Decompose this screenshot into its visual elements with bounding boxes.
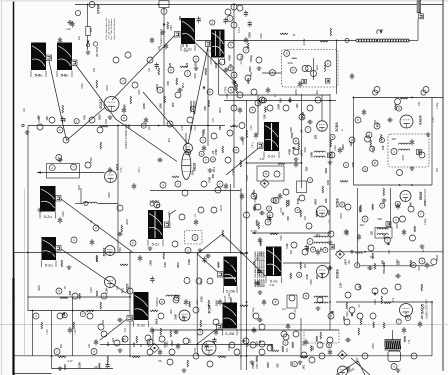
junction 2 xyxy=(233,125,235,127)
terminal 148 xyxy=(391,149,397,155)
svg-text:.0047: .0047 xyxy=(344,258,347,265)
terminal a49 xyxy=(379,138,384,143)
arrow pot 1 xyxy=(87,41,90,44)
junction 20 xyxy=(431,301,433,303)
terminal 129 xyxy=(231,105,237,111)
svg-text:47K: 47K xyxy=(212,117,215,122)
capacitor C12 xyxy=(238,107,242,114)
IF transformer T3 xyxy=(264,122,279,159)
svg-text:TP-1: TP-1 xyxy=(122,287,125,293)
resistor RH7 xyxy=(86,310,94,312)
tube V8 5AQ5 audio out xyxy=(400,304,413,317)
resistor R4 xyxy=(62,105,64,113)
wire horiz y190 det xyxy=(150,190,241,192)
terminal 31 xyxy=(193,56,199,62)
svg-text:.0047: .0047 xyxy=(106,84,109,91)
wire vert x218 below T2 xyxy=(218,58,220,95)
capacitor CH6 xyxy=(157,158,163,162)
svg-text:.001: .001 xyxy=(253,260,256,265)
capacitor a130 xyxy=(205,343,209,350)
terminal 168 xyxy=(197,329,203,335)
svg-text:6T8A: 6T8A xyxy=(97,4,101,14)
terminal 83 xyxy=(344,319,350,325)
wire L4 lead left xyxy=(75,203,83,205)
terminal 18 xyxy=(302,66,308,72)
osc coil core b xyxy=(194,101,196,114)
svg-text:150V: 150V xyxy=(342,144,345,150)
wire diagonal B7 takeoff xyxy=(61,249,126,293)
resistor R9 xyxy=(330,28,332,36)
terminal a182 xyxy=(295,208,300,213)
terminal 21 xyxy=(325,61,331,67)
junction 8 xyxy=(246,162,248,164)
svg-text:680: 680 xyxy=(124,104,127,109)
terminal a114 xyxy=(159,299,164,304)
terminal a138 xyxy=(327,343,332,348)
ground 4 xyxy=(194,66,199,70)
terminal 84 xyxy=(273,299,279,305)
terminal 9 xyxy=(231,22,237,28)
junction 24 xyxy=(353,97,355,99)
capacitor a103 xyxy=(202,257,206,264)
svg-text:1.5K: 1.5K xyxy=(133,342,136,347)
wire vert x197 drop xyxy=(196,253,198,357)
junction 22 xyxy=(411,184,413,186)
page border left rail xyxy=(13,0,15,375)
wire vert x313 in box xyxy=(313,58,315,80)
diamond test point D3 xyxy=(150,344,159,353)
svg-text:3CB6: 3CB6 xyxy=(336,198,340,207)
brightness control box xyxy=(257,166,284,181)
svg-text:.0047: .0047 xyxy=(156,83,159,90)
wire diagonal T1 to phase det xyxy=(112,36,175,101)
svg-text:.05: .05 xyxy=(300,129,303,133)
IF transformer T4 xyxy=(40,186,56,219)
terminal 50 xyxy=(84,202,88,206)
resistor R38 xyxy=(410,260,412,267)
svg-text:DET: DET xyxy=(378,218,383,221)
svg-text:270K: 270K xyxy=(291,132,294,138)
terminal 103 xyxy=(87,313,93,319)
terminal 165 xyxy=(71,164,77,170)
resistor R54 xyxy=(286,200,288,207)
junction 29 xyxy=(129,252,131,254)
wire vert x241 B+ bus xyxy=(240,188,242,370)
wire vert x301 low xyxy=(300,318,302,356)
wire vert x390 det xyxy=(390,188,392,228)
wire L4 lead right xyxy=(98,203,119,205)
svg-text:3BZ6: 3BZ6 xyxy=(193,163,197,172)
svg-text:47K: 47K xyxy=(377,122,380,127)
terminal 16 xyxy=(284,50,290,56)
left rail lower thick xyxy=(12,278,14,375)
arrow pot 4 xyxy=(351,314,354,317)
resistor a86 xyxy=(260,240,262,246)
resistor RH2 xyxy=(280,33,288,35)
svg-text:100K: 100K xyxy=(328,209,331,215)
resistor R11 xyxy=(381,296,383,304)
resistor R19 xyxy=(186,40,188,47)
terminal 58 xyxy=(255,204,261,210)
svg-text:270K: 270K xyxy=(256,363,259,369)
tube V7 3CB6 b xyxy=(317,266,340,279)
svg-text:1000: 1000 xyxy=(160,103,163,109)
svg-text:Osc. Tube Or Reduce: Osc. Tube Or Reduce xyxy=(110,18,113,40)
svg-text:100K: 100K xyxy=(90,287,93,293)
svg-text:25V: 25V xyxy=(303,341,306,346)
wire vert x353 sound if xyxy=(353,98,355,186)
terminal 174 xyxy=(283,189,289,195)
svg-text:100K: 100K xyxy=(310,152,313,158)
resistor R22 xyxy=(96,255,98,262)
terminal 17 xyxy=(290,67,296,73)
yoke plug xyxy=(419,14,424,19)
svg-text:270K: 270K xyxy=(242,139,245,145)
terminal 30 xyxy=(345,204,351,210)
terminal 60 xyxy=(299,195,305,201)
ground 14 xyxy=(198,248,203,252)
ground 15 xyxy=(258,290,263,294)
ground 11 xyxy=(420,244,425,248)
terminal 51 xyxy=(117,205,123,211)
resistor R53 xyxy=(254,204,256,211)
svg-text:680: 680 xyxy=(255,195,258,200)
junction 12 xyxy=(72,310,74,312)
wire fan to T8 slug xyxy=(197,254,219,273)
svg-text:5-2x: 5-2x xyxy=(270,279,278,284)
svg-text:10K: 10K xyxy=(88,343,91,348)
terminal top small tube xyxy=(75,10,80,15)
terminal 143 xyxy=(351,251,353,253)
terminal 32 xyxy=(200,137,206,143)
terminal 137 xyxy=(253,313,259,319)
arrow pot 5 xyxy=(243,340,246,343)
terminal 140 xyxy=(349,307,355,313)
terminal 100 xyxy=(147,349,153,355)
svg-text:5-2x: 5-2x xyxy=(152,242,160,247)
capacitor C26 xyxy=(286,323,290,330)
svg-text:47K: 47K xyxy=(167,81,170,86)
terminal 97 xyxy=(91,349,97,355)
capacitor C44 xyxy=(158,349,162,356)
terminal 47 xyxy=(85,162,91,168)
resistor RH12 xyxy=(270,233,278,235)
terminal 131 xyxy=(225,157,231,163)
resistor R20 xyxy=(222,146,224,153)
resistor R5 xyxy=(100,142,102,149)
terminal a144 xyxy=(405,316,410,321)
wire vert x81 xyxy=(80,188,82,204)
slug adjust M7 xyxy=(56,246,62,252)
junction 32 xyxy=(246,301,248,303)
resistor R8 xyxy=(298,143,300,150)
terminal 4 xyxy=(161,8,167,14)
resistor RH21 xyxy=(278,163,285,165)
trap coil L11b xyxy=(314,156,325,157)
terminal 72 xyxy=(410,235,416,241)
wire vert x234 main xyxy=(233,5,235,189)
svg-text:100K: 100K xyxy=(168,211,171,217)
resistor R16 xyxy=(240,160,242,167)
svg-text:250V: 250V xyxy=(355,358,359,365)
terminal 78 xyxy=(395,284,401,290)
capacitor C15 xyxy=(138,255,142,262)
wire diagonal bottom right xyxy=(351,358,370,375)
page border right rail xyxy=(442,0,444,371)
resistor R52 xyxy=(208,300,210,307)
wire vert x14 bottom xyxy=(13,253,15,374)
terminal 164 xyxy=(49,165,55,171)
terminal 181 xyxy=(225,9,231,15)
terminal 155 xyxy=(251,89,257,95)
svg-text:270K: 270K xyxy=(183,315,186,321)
coil L10 xyxy=(324,63,325,71)
wire horiz y330 vert section xyxy=(153,329,339,331)
terminal 141 xyxy=(357,313,363,319)
terminal 94 xyxy=(169,349,175,355)
terminal 62 xyxy=(328,231,334,237)
IF transformer T7 xyxy=(266,247,282,284)
resistor R29 xyxy=(346,302,348,309)
terminal 163 xyxy=(219,59,225,65)
wire coil to corner xyxy=(408,40,418,42)
terminal 196 xyxy=(431,259,437,265)
svg-text:6C4: 6C4 xyxy=(116,164,120,171)
terminal 71 xyxy=(418,211,424,217)
terminal a43 xyxy=(330,134,335,139)
tube V6 3CB6 xyxy=(317,198,340,217)
terminal 154 xyxy=(315,97,321,103)
svg-text:TO-1: TO-1 xyxy=(138,167,141,173)
svg-text:5-2x: 5-2x xyxy=(137,323,145,328)
svg-text:100K: 100K xyxy=(289,97,292,103)
tube V11 6CM7 vert out xyxy=(202,341,216,355)
terminal a135 xyxy=(283,340,288,345)
svg-text:5-2u: 5-2u xyxy=(44,214,52,219)
terminal 52 xyxy=(130,240,136,246)
terminal 90 xyxy=(259,349,265,355)
resistor R33 xyxy=(100,302,102,309)
terminal 43 xyxy=(63,137,69,143)
terminal 108 xyxy=(101,293,107,299)
junction 34 xyxy=(411,97,413,99)
terminal 195 xyxy=(273,198,279,204)
terminal 22 xyxy=(269,70,275,76)
arrow into coil xyxy=(380,31,383,34)
resistor a134 xyxy=(271,344,273,350)
terminal 20 xyxy=(311,71,317,77)
wire horiz y100 agc xyxy=(224,100,336,102)
terminal 144 xyxy=(395,99,401,105)
svg-text:ADJUST TOP AND BOTTOM CORES: ADJUST TOP AND BOTTOM CORES xyxy=(262,251,265,287)
resistor RH19 xyxy=(150,310,158,312)
ground 19 xyxy=(298,360,303,364)
terminal 186 xyxy=(237,92,243,98)
svg-text:6CD7: 6CD7 xyxy=(103,248,107,257)
resistor RH15 xyxy=(100,126,108,128)
resistor a164 xyxy=(99,363,101,369)
svg-text:25V: 25V xyxy=(172,102,175,107)
svg-text:6AU6: 6AU6 xyxy=(419,115,423,124)
svg-text:E: E xyxy=(286,52,288,56)
wire vert x72 xyxy=(72,297,74,356)
svg-text:680: 680 xyxy=(122,337,125,342)
svg-text:1.5K: 1.5K xyxy=(194,347,197,352)
shield box quad coil xyxy=(388,134,429,167)
capacitor a155 xyxy=(223,18,227,25)
resistor R34 xyxy=(160,328,162,335)
svg-text:255V: 255V xyxy=(230,297,233,303)
svg-text:47K: 47K xyxy=(124,327,127,332)
ground 20 xyxy=(346,366,351,370)
terminal 48 xyxy=(71,237,77,243)
wire diagonal B6 takeoff xyxy=(61,199,133,253)
svg-text:12K: 12K xyxy=(397,260,400,265)
terminal 27 xyxy=(423,87,429,93)
wire y73 into box xyxy=(262,72,282,74)
svg-text:1.5K: 1.5K xyxy=(106,288,109,293)
svg-text:25V: 25V xyxy=(194,61,197,66)
terminal 166 xyxy=(56,155,62,161)
wire V3 plate up xyxy=(321,95,323,121)
svg-text:100K: 100K xyxy=(170,25,173,31)
coil L12 takeoff xyxy=(292,58,296,59)
diamond test point D1 xyxy=(338,350,347,359)
svg-text:5-2l8: 5-2l8 xyxy=(225,331,235,336)
capacitor C7 xyxy=(338,147,342,154)
resistor R17 xyxy=(208,100,210,107)
resistor R57 xyxy=(404,336,406,342)
terminal 192 xyxy=(201,181,207,187)
slug adjust M3 xyxy=(175,32,181,38)
page left edge shadow xyxy=(1,0,3,375)
svg-text:56K: 56K xyxy=(179,16,182,21)
svg-text:82K: 82K xyxy=(168,137,171,142)
terminal a58 xyxy=(363,167,368,172)
svg-text:1500: 1500 xyxy=(105,119,108,125)
svg-text:120: 120 xyxy=(186,62,189,67)
wire vert x230 det xyxy=(230,184,232,253)
resistor RH18 xyxy=(384,302,391,304)
resistor RH17 xyxy=(272,350,279,352)
terminal 63 xyxy=(291,242,297,248)
svg-text:3300: 3300 xyxy=(307,245,310,251)
resistor RH11 xyxy=(355,252,363,254)
capacitor C37 xyxy=(108,167,112,174)
resistor a65 xyxy=(256,220,258,226)
junction 9 xyxy=(329,100,331,102)
terminal 57 xyxy=(244,212,250,218)
svg-text:100K: 100K xyxy=(277,104,280,110)
resistor RH4 xyxy=(230,126,238,128)
tube V2 6X8 envelope xyxy=(182,152,191,180)
svg-text:.001: .001 xyxy=(296,103,299,108)
faint rail x24 xyxy=(24,188,26,356)
terminal 49 xyxy=(93,225,99,231)
resistor R49 xyxy=(372,253,374,259)
svg-text:50K: 50K xyxy=(90,27,93,32)
terminal 104 xyxy=(98,324,104,330)
capacitor C39 xyxy=(224,183,228,190)
svg-text:470K: 470K xyxy=(228,55,231,61)
svg-text:1 Meg: 1 Meg xyxy=(250,55,253,63)
terminal a84 xyxy=(297,272,302,277)
capacitor a165 xyxy=(105,362,109,369)
resistor R13 xyxy=(370,140,372,147)
svg-text:4.7K: 4.7K xyxy=(120,167,123,172)
svg-text:56K: 56K xyxy=(290,249,293,254)
terminal 197 xyxy=(305,127,311,133)
resistor RH10 xyxy=(340,181,348,183)
resistor a169 xyxy=(247,43,249,49)
capacitor C18 xyxy=(316,249,320,256)
capacitor C19 xyxy=(344,229,348,236)
resistor R32 xyxy=(73,322,75,329)
svg-text:100K: 100K xyxy=(215,300,218,306)
svg-text:5-2x: 5-2x xyxy=(268,154,276,159)
junction 3 xyxy=(207,125,209,127)
svg-text:15K: 15K xyxy=(264,114,267,119)
coil L7 slug xyxy=(386,222,391,227)
terminal a33 xyxy=(261,98,266,103)
speaker terminal xyxy=(391,364,397,370)
wire horiz y297 xyxy=(28,296,131,298)
svg-text:1.5K: 1.5K xyxy=(250,125,253,130)
terminal a91 xyxy=(355,263,360,268)
svg-text:TP-1: TP-1 xyxy=(256,255,259,261)
terminal 42 xyxy=(57,127,63,133)
svg-text:1 W1: 1 W1 xyxy=(46,329,49,335)
svg-text:3CB6: 3CB6 xyxy=(335,122,339,131)
wire diagonal T3 to video xyxy=(226,149,258,176)
arrow pot 2 xyxy=(293,147,296,150)
terminal 130 xyxy=(233,147,239,153)
wire diagonal tuner2 to IF xyxy=(75,63,178,162)
capacitor C24 xyxy=(214,329,218,336)
junction 28 xyxy=(336,40,338,42)
trap slug xyxy=(328,153,333,158)
svg-text:6800: 6800 xyxy=(156,318,159,324)
terminal 187 xyxy=(263,171,269,177)
svg-text:15K: 15K xyxy=(219,126,222,131)
terminal a16 xyxy=(186,150,191,155)
slug adjust M11 xyxy=(127,316,133,322)
terminal 8 xyxy=(227,16,233,22)
terminal 136 xyxy=(193,353,199,359)
svg-text:112: 112 xyxy=(282,308,286,311)
junction 6 xyxy=(27,252,29,254)
svg-text:.001: .001 xyxy=(421,314,424,319)
svg-text:22K: 22K xyxy=(305,166,308,171)
page top edge shade xyxy=(0,0,448,2)
resistor RH16 xyxy=(48,253,56,255)
wire horiz y310 xyxy=(28,310,131,312)
svg-text:120K: 120K xyxy=(334,145,337,151)
terminal 45 xyxy=(121,115,127,121)
svg-text:150V: 150V xyxy=(260,33,263,39)
wire arrow bend2 xyxy=(377,29,383,31)
capacitor a167 xyxy=(248,21,252,28)
terminal a17 xyxy=(199,151,204,156)
wire diagonal to 6X8 xyxy=(143,92,188,144)
terminal 3 xyxy=(93,42,97,46)
terminal 39 xyxy=(154,202,160,208)
svg-text:.0047: .0047 xyxy=(340,212,343,219)
svg-text:.0082: .0082 xyxy=(290,126,293,133)
svg-text:470K: 470K xyxy=(280,235,283,241)
capacitor CH7 xyxy=(117,232,123,236)
resistor R18 xyxy=(164,96,166,103)
